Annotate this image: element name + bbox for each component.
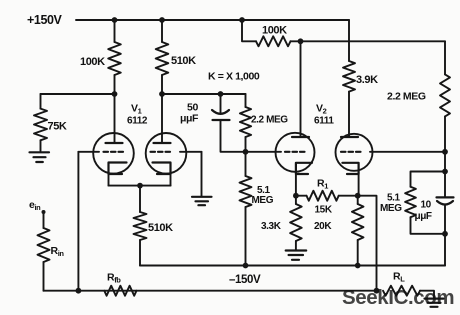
svg-text:100K: 100K [262, 25, 287, 37]
svg-text:100K: 100K [80, 56, 105, 68]
tube V1 envelope right [146, 133, 187, 174]
V1 right grid [151, 151, 202, 153]
junction 5.1MEG bottom on -150V [243, 263, 249, 269]
tube V2 envelope left [276, 133, 315, 172]
svg-text:μμF: μμF [180, 113, 199, 125]
tube V1 envelope left [93, 133, 134, 174]
junction RC top [442, 169, 448, 175]
resistor 510K (V1 right plate load) [156, 20, 196, 94]
V2 right plate [341, 136, 358, 138]
junction at 510K top [159, 17, 165, 23]
junction at 100K(horizontal) branch [239, 17, 245, 23]
junction summing [76, 288, 82, 294]
junction 20K bottom [355, 263, 361, 269]
wire V1 right cathode lead [170, 174, 172, 186]
svg-text:10: 10 [421, 200, 432, 211]
resistor 20K [314, 196, 364, 266]
svg-text:2.2 MEG: 2.2 MEG [387, 91, 426, 103]
svg-text:SeekIC.com: SeekIC.com [342, 286, 454, 309]
resistor 2.2 MEG (coupling) [240, 94, 288, 152]
wire plate bus to 2.2MEG right [301, 40, 446, 42]
junction V2b cathode [355, 193, 361, 199]
wire cathode output to feedback [358, 196, 377, 291]
V2 left plate [292, 41, 309, 137]
resistor Rl 15K [296, 178, 358, 216]
wire V1 grid2 to ground [201, 152, 203, 196]
svg-text:MEG: MEG [252, 195, 274, 206]
svg-text:510K: 510K [171, 55, 196, 67]
svg-text:MEG: MEG [380, 203, 402, 214]
svg-text:K = X 1,000: K = X 1,000 [208, 71, 260, 83]
wire plate node to 75K [41, 93, 115, 95]
junction 100K bottom [112, 91, 118, 97]
V1 right plate [154, 94, 171, 143]
V1 left cathode [109, 163, 127, 175]
wire RC bottom to -150V rail [444, 234, 446, 266]
svg-text:510K: 510K [148, 222, 173, 234]
svg-text:75K: 75K [48, 121, 67, 133]
junction RC bottom [442, 231, 448, 237]
junction 510K bottom [159, 91, 165, 97]
capacitor 50uuF [180, 94, 246, 152]
resistor R_in [38, 212, 65, 291]
svg-text:3.9K: 3.9K [356, 74, 378, 86]
ground (3.3K) [286, 251, 307, 260]
resistor 5.1 MEG (left divider) [240, 152, 274, 266]
junction cathodes V1 [137, 183, 143, 189]
wire plate V1b to divider [162, 93, 246, 95]
wire V1 left cathode lead [108, 174, 110, 186]
wire grid node down [444, 152, 446, 172]
junction 2.2MEG bottom / grid [442, 149, 448, 155]
wire cathode join [109, 185, 171, 187]
V1 left plate [106, 94, 123, 143]
resistor 3.3K [261, 196, 302, 250]
junction cap top [218, 91, 224, 97]
svg-text:20K: 20K [314, 221, 332, 232]
resistor 100K (V1 left plate load) [80, 20, 121, 94]
V2 left grid [246, 151, 305, 153]
svg-text:+150V: +150V [27, 13, 63, 27]
svg-text:μμF: μμF [415, 211, 432, 222]
wire +150V rail [76, 19, 349, 21]
wire feedback bus [44, 290, 377, 292]
resistor 2.2 MEG (right divider) [387, 41, 450, 152]
wire -150V rail [140, 265, 445, 267]
resistor R_L [383, 271, 434, 298]
resistor 510K (tail) [134, 186, 174, 266]
svg-text:2.2 MEG: 2.2 MEG [251, 115, 288, 126]
svg-text:6112: 6112 [127, 116, 148, 127]
svg-text:6111: 6111 [314, 116, 334, 127]
wire summing junction to V1 grid [77, 152, 79, 291]
tube V2 envelope right [336, 134, 373, 171]
junction V2a plate node [298, 38, 304, 44]
junction at 100K top [112, 17, 118, 23]
junction divider node (V2a grid) [243, 149, 249, 155]
junction output node [374, 288, 380, 294]
svg-text:3.3K: 3.3K [261, 221, 282, 232]
wire V2 right cathode lead [358, 174, 360, 196]
ground (V1 grid 2) [192, 197, 212, 205]
V1 right cathode [153, 163, 171, 175]
capacitor 10uuF [415, 172, 454, 234]
junction V2a cathode [293, 193, 299, 199]
resistor 75K [34, 94, 67, 151]
V1 left grid [78, 151, 123, 153]
resistor 5.1 MEG (right, in RC) [380, 172, 445, 234]
V2 right cathode [342, 163, 358, 174]
wire V2 left cathode lead [295, 174, 297, 196]
resistor 100K (V2 left plate load, horizontal) [242, 20, 301, 46]
svg-text:5.1: 5.1 [387, 193, 401, 204]
ground (R_L) [425, 299, 444, 307]
resistor 3.9K (V2 right plate load) [343, 20, 378, 137]
svg-text:15K: 15K [315, 205, 333, 216]
svg-text:–150V: –150V [229, 274, 261, 286]
ground (75K) [30, 152, 50, 162]
V2 left cathode [296, 163, 312, 174]
V2 right grid [341, 151, 445, 153]
resistor R_fb [104, 272, 136, 296]
